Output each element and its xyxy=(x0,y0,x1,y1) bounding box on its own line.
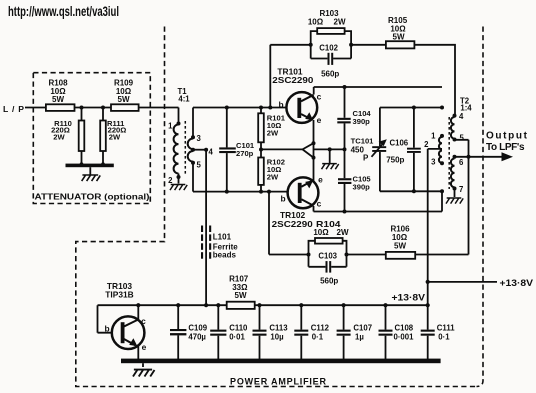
capacitor C108 xyxy=(379,303,415,359)
svg-text:0·1: 0·1 xyxy=(438,333,450,342)
svg-text:C113: C113 xyxy=(269,324,288,333)
wire: TR102 emitter riser xyxy=(313,158,315,181)
svg-text:2: 2 xyxy=(424,140,429,149)
wire: matching loop bottom edge xyxy=(380,189,444,193)
svg-text:390p: 390p xyxy=(353,182,371,191)
capacitor C104 xyxy=(337,85,371,149)
wire: feedback bottom left riser xyxy=(267,190,309,255)
resistor R101 xyxy=(258,106,286,150)
transistor TR103 xyxy=(104,281,146,352)
wire: matching loop top edge xyxy=(380,106,444,110)
wire: T2 pin2 tap to +13.8V riser xyxy=(428,149,442,305)
wire: R104 combo to R106 xyxy=(347,254,386,256)
svg-text:10µ: 10µ xyxy=(270,333,284,342)
wire: R105 to T2 pin4 xyxy=(414,45,455,116)
trimmer capacitor TC101 xyxy=(351,108,387,192)
ground attenuator bar xyxy=(66,162,114,181)
wire: +13.8V branch right xyxy=(426,278,534,289)
wire: TR103 collector riser xyxy=(136,303,140,320)
svg-text:4: 4 xyxy=(209,148,214,157)
svg-text:e: e xyxy=(318,175,323,185)
svg-text:5: 5 xyxy=(460,134,465,143)
svg-text:1: 1 xyxy=(431,131,436,140)
svg-text:10Ω: 10Ω xyxy=(308,18,324,27)
wire: R103 combo to R105 xyxy=(351,44,386,46)
svg-text:10Ω: 10Ω xyxy=(313,228,329,237)
svg-text:5W: 5W xyxy=(118,95,130,104)
wire: TR102 collector line xyxy=(314,191,443,211)
svg-text:2W: 2W xyxy=(334,18,346,27)
svg-text:2SC2290: 2SC2290 xyxy=(272,219,313,229)
svg-text:470µ: 470µ xyxy=(188,333,206,342)
wire: R109 to T1 primary xyxy=(139,107,179,109)
svg-text:5: 5 xyxy=(197,161,202,170)
svg-text:C106: C106 xyxy=(390,139,409,148)
capacitor C113 xyxy=(253,303,289,359)
capacitor C107 xyxy=(337,303,372,359)
svg-text:c: c xyxy=(141,316,146,326)
svg-text:5W: 5W xyxy=(52,95,64,104)
svg-text:2W: 2W xyxy=(337,228,349,237)
svg-text:e: e xyxy=(317,115,322,125)
svg-text:R106: R106 xyxy=(390,224,410,233)
svg-text:5W: 5W xyxy=(394,241,406,250)
svg-text:6: 6 xyxy=(459,158,464,167)
svg-text:2: 2 xyxy=(168,176,173,185)
POWER AMPLIFIER dashed border xyxy=(76,27,483,387)
svg-text:TC101: TC101 xyxy=(351,137,375,146)
capacitor C110 xyxy=(210,303,248,359)
svg-text:L101: L101 xyxy=(213,233,232,242)
svg-text:TIP31B: TIP31B xyxy=(105,290,133,300)
resistor R102 xyxy=(258,148,285,194)
node label L/P xyxy=(3,104,24,114)
wire: L/P input to attenuator xyxy=(25,107,46,109)
svg-text:b: b xyxy=(280,194,285,204)
transistor TR102 xyxy=(272,175,323,230)
wire: feedback top left riser xyxy=(268,45,310,110)
svg-text:C102: C102 xyxy=(319,44,338,53)
svg-text:2W: 2W xyxy=(53,132,65,141)
resistor R110 xyxy=(51,108,84,165)
svg-text:C109: C109 xyxy=(188,324,207,333)
svg-text:C107: C107 xyxy=(353,324,372,333)
svg-text:C108: C108 xyxy=(395,324,414,333)
wire: TR101 collector line xyxy=(314,86,442,88)
wire: TR103 base to collector loop xyxy=(98,305,139,333)
junction node R110 top xyxy=(80,106,84,110)
transformer T2 xyxy=(424,96,472,194)
capacitor C106 xyxy=(386,108,421,192)
wire: T1 tap pin4 xyxy=(193,148,208,152)
svg-text:1µ: 1µ xyxy=(355,333,364,342)
transistor TR101 xyxy=(272,67,321,126)
svg-text:C110: C110 xyxy=(229,324,248,333)
svg-text:3: 3 xyxy=(197,134,202,143)
svg-text:7: 7 xyxy=(459,185,463,194)
svg-text:560p: 560p xyxy=(321,70,339,79)
wire: bias rail TR103 to R107 xyxy=(138,304,226,306)
inductor L101 ferrite beads xyxy=(201,150,238,306)
capacitor C111 xyxy=(421,303,456,359)
svg-text:C112: C112 xyxy=(311,324,330,333)
ground TR103 emitter xyxy=(133,370,155,377)
capacitor C101 xyxy=(219,106,255,194)
svg-text:4: 4 xyxy=(459,112,464,121)
svg-text:b: b xyxy=(278,100,283,110)
svg-text:C111: C111 xyxy=(437,324,455,333)
wire: TR102 collector riser xyxy=(313,206,315,212)
svg-text:e: e xyxy=(142,342,147,352)
svg-text:2W: 2W xyxy=(109,132,121,141)
node label +13.8V rail xyxy=(392,293,426,304)
svg-text:5W: 5W xyxy=(393,33,405,42)
resistor R108 xyxy=(46,79,75,111)
svg-text:beads: beads xyxy=(213,251,237,260)
wire: bottom rail T1 pin5 to TR102 base xyxy=(193,191,288,193)
ground T1 pin2 xyxy=(170,185,187,191)
net label URL xyxy=(8,3,119,19)
svg-text:To LPF's: To LPF's xyxy=(486,142,525,153)
svg-text:2W: 2W xyxy=(267,173,279,182)
resistor R103 with capacitor C102 loop xyxy=(308,9,353,79)
resistor R107 xyxy=(227,274,255,309)
svg-text:C103: C103 xyxy=(318,251,337,260)
ATTENUATOR dashed box xyxy=(33,73,150,204)
svg-text:Output: Output xyxy=(486,130,528,141)
wire: TR103 emitter riser xyxy=(137,346,139,359)
svg-text:560p: 560p xyxy=(320,276,338,285)
wire: T2 pin5 to pin6 jumper xyxy=(455,140,469,157)
resistor R111 xyxy=(100,108,126,165)
ground mid emitters xyxy=(322,147,339,169)
svg-text:L / P: L / P xyxy=(3,104,24,114)
svg-text:POWER AMPLIFIER: POWER AMPLIFIER xyxy=(230,376,327,386)
capacitor C105 xyxy=(338,147,371,213)
svg-text:5W: 5W xyxy=(235,291,247,300)
net label POWER AMPLIFIER xyxy=(230,376,327,386)
ground T2 pin7 xyxy=(446,189,463,204)
resistor R106 xyxy=(386,224,415,258)
wire: TR101 collector riser xyxy=(313,87,315,95)
svg-text:390p: 390p xyxy=(353,117,371,126)
svg-text:c: c xyxy=(317,92,322,102)
wire: output arrow xyxy=(455,152,514,161)
svg-text:2SC2290: 2SC2290 xyxy=(272,75,313,85)
svg-text:http://www.qsl.net/va3iul: http://www.qsl.net/va3iul xyxy=(8,3,119,19)
svg-text:+13·8V: +13·8V xyxy=(500,278,534,289)
wire: TR101 emitter riser xyxy=(313,120,315,143)
resistor R109 xyxy=(111,79,139,111)
svg-text:c: c xyxy=(317,199,322,209)
junction node L101 on rail xyxy=(204,303,208,307)
wire: supply rail R107 to +13.8V corner xyxy=(255,304,428,306)
capacitor C112 xyxy=(294,303,329,359)
wire: R106 to output node xyxy=(415,157,468,255)
svg-text:0·001: 0·001 xyxy=(394,333,415,342)
resistor R104 with capacitor C103 loop xyxy=(307,219,349,285)
capacitor C109 xyxy=(170,303,208,359)
transformer T1 xyxy=(168,87,213,192)
svg-text:P: P xyxy=(363,154,369,163)
svg-text:0·1: 0·1 xyxy=(312,333,324,342)
resistor R105 xyxy=(386,16,415,48)
svg-text:ATTENUATOR (optional): ATTENUATOR (optional) xyxy=(35,192,150,202)
svg-text:750p: 750p xyxy=(386,156,404,165)
wire: top rail T1 pin3 to TR101 base xyxy=(193,107,287,109)
wire: between R108 and R109 xyxy=(75,107,112,109)
junction node R111 top xyxy=(101,106,105,110)
node label Output To LPF's xyxy=(486,130,528,153)
svg-text:+13·8V: +13·8V xyxy=(392,293,426,304)
svg-text:2W: 2W xyxy=(267,129,279,138)
ground bar bottom xyxy=(121,359,441,367)
svg-text:270p: 270p xyxy=(236,149,254,158)
wire: emitter junction fan xyxy=(261,141,345,159)
svg-text:1: 1 xyxy=(168,122,173,131)
svg-text:4:1: 4:1 xyxy=(178,95,190,104)
svg-text:0·01: 0·01 xyxy=(229,333,245,342)
svg-text:3: 3 xyxy=(431,158,436,167)
